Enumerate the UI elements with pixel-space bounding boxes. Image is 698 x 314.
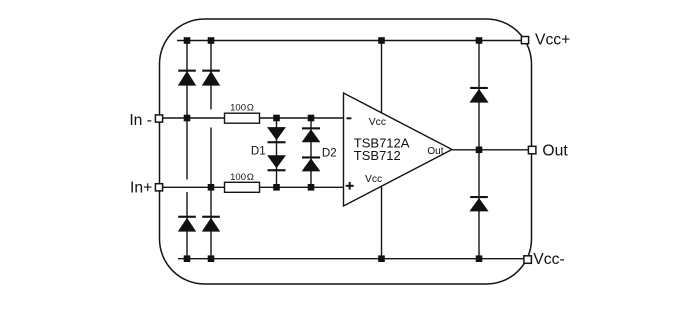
svg-text:Vcc+: Vcc+: [535, 31, 570, 48]
svg-text:100 Ω: 100 Ω: [230, 172, 254, 183]
svg-text:100 Ω: 100 Ω: [230, 103, 254, 114]
svg-text:Out: Out: [427, 146, 443, 157]
svg-text:Vcc-: Vcc-: [533, 251, 564, 268]
svg-text:TSB712: TSB712: [354, 148, 401, 163]
svg-text:Out: Out: [542, 143, 568, 160]
svg-text:In+: In+: [130, 180, 152, 197]
svg-text:Vcc: Vcc: [365, 174, 382, 185]
svg-text:D2: D2: [322, 147, 337, 159]
svg-text:Vcc: Vcc: [369, 117, 386, 128]
svg-text:In -: In -: [129, 112, 152, 129]
svg-text:D1: D1: [251, 146, 266, 158]
